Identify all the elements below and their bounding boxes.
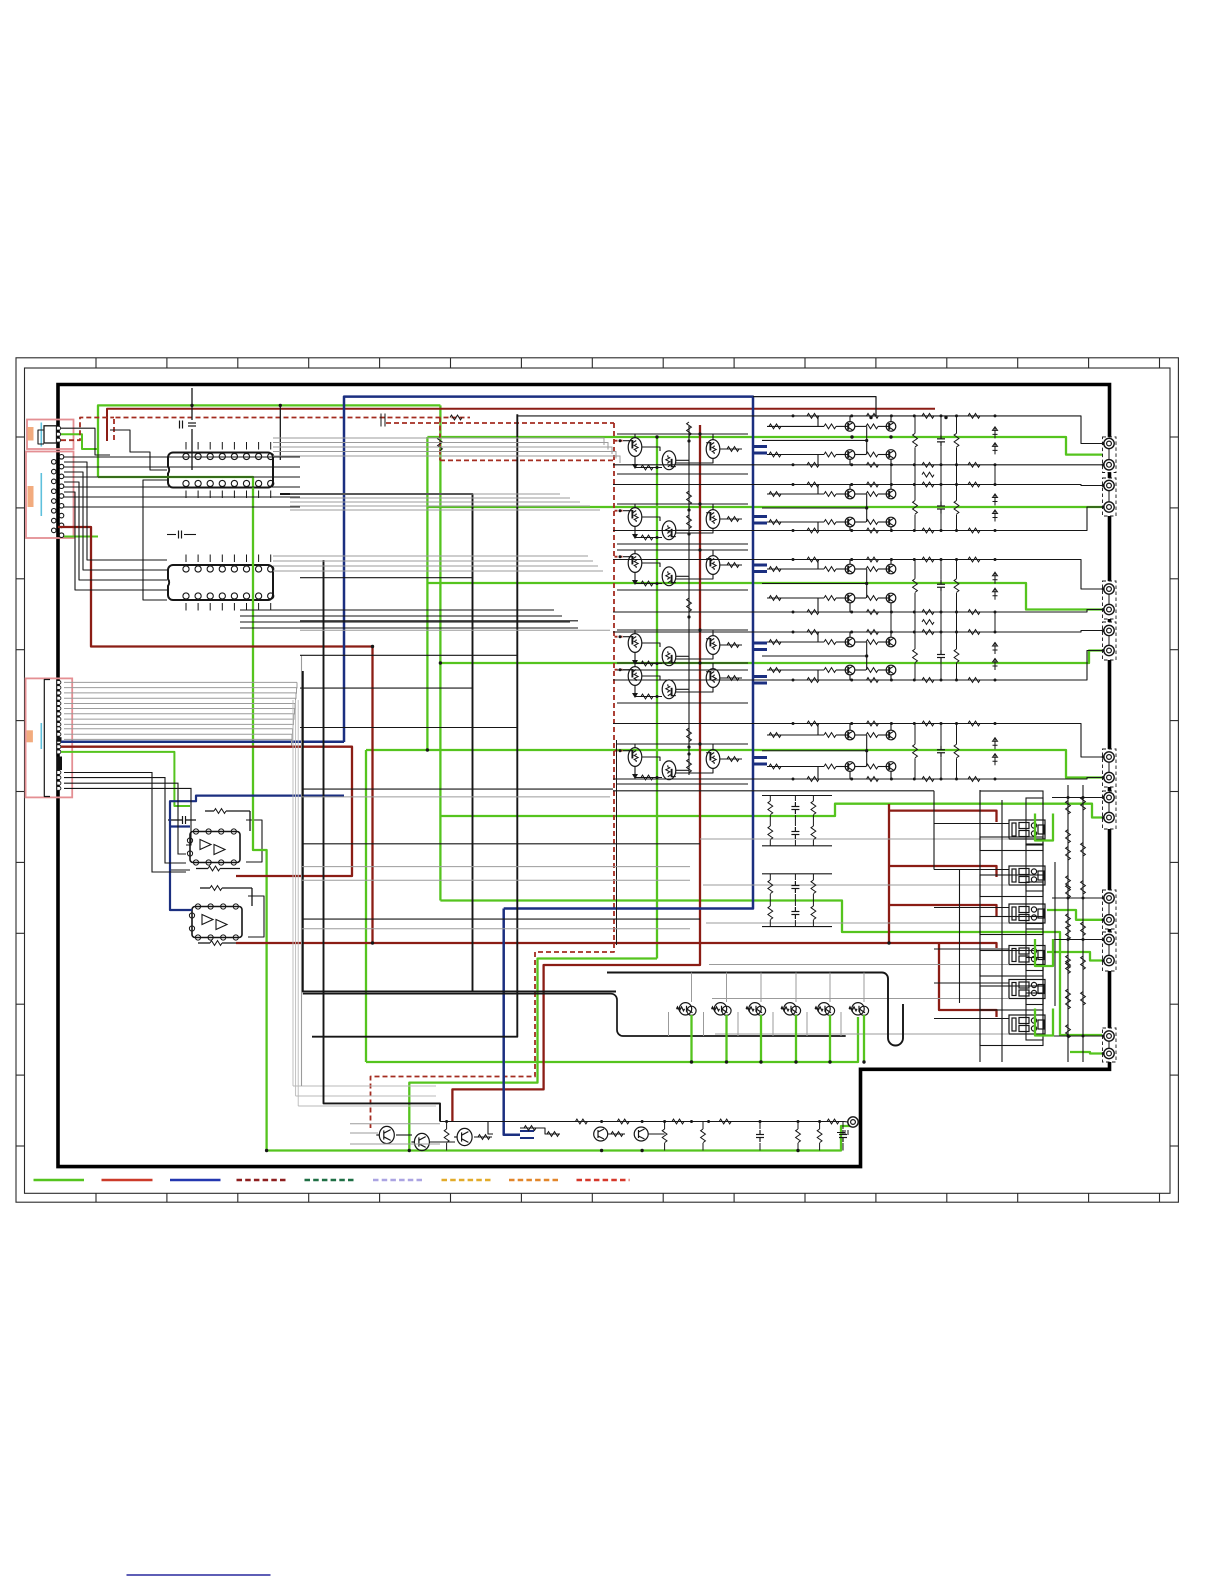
output connector link [1108, 945, 1110, 956]
resistor R-chain [687, 422, 692, 436]
bias component A [768, 801, 773, 815]
bus vert x323 to bottom rail [324, 560, 441, 1122]
transistor Q6a [628, 748, 642, 767]
channel 4 top rail [613, 631, 1040, 633]
maroon wire M2 from CN103 [61, 747, 352, 876]
navy blue stubs on bus [753, 445, 767, 448]
legend line dashed orange [509, 1179, 561, 1182]
power transistor Q65 wires [829, 973, 831, 1003]
green wire CN103 out [61, 752, 190, 806]
grid wires row Q3 [634, 550, 636, 554]
channel 3 mid link [762, 583, 867, 585]
IC IC101 body [168, 453, 273, 488]
transistor Q6b [662, 761, 676, 780]
channel 1 bottom rail [613, 464, 1040, 466]
output device RL3 left wires [934, 907, 1009, 909]
connector CN103 pin block [57, 757, 63, 771]
dashed caps left [381, 414, 385, 427]
output connector dashed box [1103, 1028, 1117, 1062]
op-amp IC201 body [190, 832, 240, 863]
channel 4 transistors [845, 637, 855, 647]
output stage green U loops [1035, 814, 1053, 841]
bias component B [768, 880, 773, 894]
green wire top run y401 [98, 405, 440, 477]
output stage resistors [1066, 801, 1071, 815]
op-amp IC202 pins [195, 904, 200, 909]
channel 5 base resistors [824, 733, 836, 738]
grid wires row Q2 [634, 504, 636, 508]
channel pair mid resistors [922, 472, 934, 477]
bottom row heavy wire top [607, 973, 903, 1046]
green wire jog group F [1070, 1052, 1102, 1054]
maroon branch G3 [889, 905, 997, 916]
maroon vert x699 overlay dots [698, 432, 701, 435]
channel 3 rail resistors [807, 557, 819, 562]
top black wires from ICs [110, 430, 167, 470]
connector CN103 inner bracket [44, 680, 50, 797]
navy blue bus rectangle [344, 397, 753, 909]
channel 2 input resistors [769, 492, 781, 497]
black vert x192 [191, 388, 193, 420]
output connector jack [1104, 752, 1114, 762]
output device RL2 left wires [934, 869, 1009, 871]
IC102 fan right [273, 556, 603, 571]
navy blue CN103 feed [61, 741, 344, 744]
bottom row vertical components [444, 1129, 449, 1143]
channel 2 top rail [613, 484, 1040, 486]
dashed red top y417 [114, 418, 470, 441]
legend line dashed gold [442, 1179, 493, 1182]
output connector jack [1104, 460, 1114, 470]
bottom rail y1121 [440, 1121, 844, 1123]
green wire vert x657 [656, 437, 658, 959]
transistor Q3c [706, 556, 720, 575]
connector CN101 pins [57, 426, 61, 430]
output connector dashed box [1103, 749, 1117, 787]
IC IC102 pins [183, 566, 189, 572]
channel 3 vertical components [913, 579, 918, 593]
output connector jack [1104, 584, 1114, 594]
transistor Q5c [706, 669, 720, 688]
grid wires row Q1 [634, 434, 636, 438]
channel 4 bottom rail [613, 679, 1040, 681]
op-amp wire box 2 [248, 896, 264, 937]
green wire CN101 stub [61, 434, 98, 449]
channel 2 base resistors [824, 492, 836, 497]
black vert x280 [279, 405, 281, 460]
channel 2 rail dots [792, 483, 795, 486]
green wire jog group D [1047, 910, 1102, 920]
green wire row1 y437 [427, 437, 1106, 455]
output device RL5 left wires [934, 982, 1009, 984]
output device RL5 [1009, 980, 1045, 999]
transistor Q6c [706, 750, 720, 769]
op-amp IC202 top resistor [210, 886, 222, 891]
output device RL6 left wires [934, 1018, 1009, 1020]
op-amp IC202 triangles [202, 915, 227, 930]
connector CN103 orange key [27, 730, 33, 742]
bottom row heavy wire left [303, 994, 846, 1036]
output connector jack [1104, 772, 1114, 782]
output connector jack [1104, 604, 1114, 614]
output connector jack [1104, 812, 1114, 822]
connector CN103 box [26, 678, 73, 797]
dashed red vert x613 + bundle to bottom [371, 423, 615, 1128]
channel 1 rail dots [792, 414, 795, 417]
bias cluster rails A [762, 795, 832, 797]
navy blue drop to bottom row [504, 909, 520, 1135]
green wire mid right y816 [441, 804, 1102, 818]
transistor Q2a [628, 508, 642, 527]
black ext of bus top [753, 397, 876, 416]
dots top [190, 404, 193, 407]
output connector jack [1104, 955, 1114, 965]
connector CN102 cyan mark [40, 473, 42, 516]
maroon branch G4 [911, 943, 997, 948]
bottom rail dots [445, 1120, 448, 1123]
IC IC102 body [168, 565, 273, 600]
connector CN103 cyan mark [40, 723, 42, 749]
channel 5 transistors [845, 730, 855, 740]
grid wires row Q6 [634, 744, 636, 748]
transistor Q1c [706, 440, 720, 459]
maroon wire M4 vert x700 + bundle [452, 425, 700, 1122]
transistor Q4c [706, 636, 720, 655]
green wire bundle to bottom [409, 959, 657, 1151]
output connector link [1108, 1041, 1110, 1048]
IC101 fan right [273, 438, 620, 463]
output connector dashed box [1103, 791, 1117, 829]
green wire vert x366 [365, 750, 367, 1062]
channel 2 rail resistors [807, 482, 819, 487]
resistor on dashed x440 [438, 437, 443, 451]
wire CN102 harness [64, 457, 300, 507]
maroon branch G2 [889, 866, 997, 877]
output connector jack [1104, 502, 1114, 512]
power transistor Q66 wires [863, 973, 865, 1003]
op-amp IC201 triangles [200, 840, 225, 855]
channel 5 wires [767, 734, 824, 736]
transistor Q3a [628, 554, 642, 573]
channel 1 transistors [845, 422, 855, 432]
channel 1 mid link [762, 439, 867, 441]
resistor R-chain [687, 598, 692, 612]
output stage wire loops [980, 791, 1043, 851]
IC102 fan down [240, 610, 578, 628]
IC102 pin stubs [186, 555, 271, 611]
power transistor Q66 [849, 1003, 869, 1016]
channel 3 output wires [1040, 560, 1102, 590]
channel 1 rail resistors [807, 414, 819, 419]
channel 2 transistors [845, 489, 855, 499]
cap between ICs [179, 531, 182, 539]
power transistor Q62 [712, 1003, 732, 1016]
bottom transistor wires [350, 1123, 440, 1125]
power transistor Q64 [781, 1003, 801, 1016]
output connector jack [1104, 1031, 1114, 1041]
navy blue to op-amps [170, 796, 344, 910]
power transistor Q65 [815, 1003, 835, 1016]
transistor Q2b [662, 521, 676, 540]
channel 3 transistors [845, 564, 855, 574]
output stage pair feeds [1052, 797, 1102, 799]
maroon branch G1 [889, 811, 997, 822]
output connector jack [1104, 915, 1114, 925]
frame outer border [16, 358, 1178, 1202]
channel 5 input resistors [769, 733, 781, 738]
output connector jack [1104, 792, 1114, 802]
resistor chain x689 [688, 426, 690, 775]
navy blue op-amp1 stub [170, 825, 190, 827]
power transistor Q62 wires [726, 973, 728, 1003]
green wire row3 y583 [427, 583, 1102, 610]
bias component B [791, 881, 799, 893]
op-amp IC202 bottom resistor [210, 941, 222, 946]
green wire bottom rail y1150 [267, 1126, 852, 1151]
resistor R-chain [687, 491, 692, 505]
channel 2 vertical components [913, 501, 918, 515]
bias cluster rails B [762, 873, 832, 875]
connector CN101 orange key [28, 427, 34, 441]
output device RL4 left wires [934, 948, 1009, 950]
frame zone ticks left/right [16, 437, 1178, 1146]
channel pair connectors [890, 465, 892, 485]
output device RL2 [1009, 866, 1045, 885]
channel 5 mid link [762, 750, 867, 752]
bus vert x302 heavy [303, 671, 616, 992]
wire CN101 loops [61, 428, 110, 455]
gray ribbon CN103 [64, 682, 297, 745]
maroon wire M1 from CN102 [58, 527, 373, 943]
mesh horizontals left [300, 577, 473, 579]
power transistor Q61 [677, 1003, 697, 1016]
channel 4 rail resistors [807, 630, 819, 635]
green wire mid right y897 [440, 901, 1102, 1036]
resistor R-chain [687, 515, 692, 529]
channel 3 wires [767, 568, 824, 570]
wire CN102 nest [64, 462, 167, 560]
channel 4 base resistors [824, 640, 836, 645]
op-amp IC201 top resistor [214, 809, 226, 814]
output connector dashed box [1103, 932, 1117, 971]
output connector link [1108, 491, 1110, 502]
output stage verticals [933, 791, 935, 870]
green wire row2 y507 [427, 506, 1102, 508]
legend line solid red [102, 1179, 153, 1182]
channel 3 input resistors [769, 567, 781, 572]
transistor Q1a [628, 438, 642, 457]
power transistor Q63 [746, 1003, 766, 1016]
resistor R-chain [687, 759, 692, 773]
IC101 pin stubs [186, 442, 271, 498]
output connector dashed box [1103, 478, 1117, 516]
mesh gray horizontals left [300, 629, 610, 631]
wire CN103 south fan [64, 773, 191, 873]
channel 4 input resistors [769, 640, 781, 645]
dashed red y423 [386, 422, 614, 424]
bottom transistors [376, 1126, 394, 1143]
output connector jack [1104, 893, 1114, 903]
legend line dashed lavender [373, 1179, 425, 1182]
op-amp IC201 top capacitor [183, 816, 186, 824]
gray fan IC101 bottom [290, 494, 600, 510]
channel 4 mid link [762, 655, 867, 657]
channel 5 rail resistors [807, 721, 819, 726]
bias component B [811, 880, 816, 894]
output connector link [1108, 449, 1110, 460]
maroon wire M5 comb x889 [888, 804, 890, 943]
bus vert x517 [312, 414, 517, 1036]
connector CN101 cyan mark [40, 423, 42, 447]
channel 5 rail dots [792, 722, 795, 725]
footer blue underline [127, 1574, 271, 1576]
IC IC101 pins [183, 453, 189, 459]
channel 2 output wires [1040, 485, 1102, 486]
output connector jack [1104, 1048, 1114, 1058]
green wire jog group E [1047, 952, 1102, 961]
channel 4 vertical components [913, 649, 918, 663]
output connector dashed box [1103, 437, 1117, 473]
legend line solid blue [170, 1179, 221, 1182]
transistor Q4a [628, 634, 642, 653]
output connector jack [1104, 438, 1114, 448]
op-amp IC201 bottom resistor [208, 866, 220, 871]
maroon top solid y409 [107, 409, 935, 441]
channel 4 wires [767, 641, 824, 643]
channel 3 top rail [613, 559, 1040, 561]
channel 1 output wires [1040, 416, 1102, 444]
output connector link [1108, 903, 1110, 914]
frame inner border [25, 368, 1171, 1193]
channel 5 output wires [1040, 724, 1102, 758]
output device RL4 [1009, 946, 1045, 965]
gray ribbon verticals [293, 700, 436, 1106]
green wire row4 y663 [440, 651, 1102, 664]
op-amp wire box 1 [246, 820, 262, 862]
power transistor Q61 wires [691, 973, 693, 1003]
connector CN102 pins [59, 455, 64, 460]
legend line solid green [34, 1179, 85, 1182]
output device RL1 [1009, 820, 1045, 839]
thick schematic border [58, 385, 1110, 1167]
transistor Q4b [662, 647, 676, 666]
legend line dashed red [577, 1179, 630, 1182]
channel 2 bottom rail [613, 530, 1040, 532]
output device RL1 left wires [934, 823, 1009, 825]
transistor Q5b [662, 680, 676, 699]
bias component A [811, 801, 816, 815]
output connector dashed box [1103, 622, 1117, 660]
output connector jack [1104, 625, 1114, 635]
output connector link [1108, 762, 1110, 772]
connector CN101 shell [44, 426, 57, 443]
op-amp IC202 body [192, 907, 242, 938]
connector CN102 box [26, 452, 74, 539]
channel 5 top rail [613, 723, 1040, 725]
output connector link [1108, 594, 1110, 604]
green wire staircase left [98, 477, 267, 1151]
resistor on dashed y417 [450, 415, 462, 420]
rail end wires [844, 1121, 848, 1124]
bottom rail resistors [575, 1119, 587, 1124]
channel 2 mid link [762, 507, 867, 509]
black vert x616 [616, 740, 618, 945]
channel 4 output wires [1040, 631, 1102, 633]
transistor Q3b [662, 567, 676, 586]
channel 5 bottom rail [613, 778, 1040, 780]
channel 5 vertical components [913, 744, 918, 758]
green wire vert x427 [426, 437, 428, 750]
output connector link [1108, 803, 1110, 813]
green wire row5 y750 [366, 750, 1102, 778]
channel 1 input resistors [769, 424, 781, 429]
dashed red stub grid rows [615, 440, 624, 442]
connector CN102 orange key [28, 486, 34, 507]
channel 1 base resistors [824, 424, 836, 429]
top mid cap x181 y424 [180, 421, 183, 429]
dashed red y460 [440, 459, 614, 461]
channel 1 top rail [518, 415, 1040, 417]
dashed red CN101 jog [61, 418, 114, 441]
bias component A [791, 802, 799, 814]
output device RL3 [1009, 904, 1045, 923]
output connector jack [1104, 934, 1114, 944]
green wire rail y1062 [366, 1017, 858, 1062]
channel 3 bottom rail [613, 611, 1040, 613]
maroon wire M6 to G6 [939, 943, 997, 1017]
grid wires row Q5 [634, 663, 636, 667]
output connector jack [1104, 480, 1114, 490]
legend line dashed dark red [237, 1179, 289, 1182]
channel 3 base resistors [824, 567, 836, 572]
dashed red vert x440 [439, 418, 441, 461]
output connector link [1108, 636, 1110, 646]
power transistor Q64 wires [795, 973, 797, 1003]
bottom output jack [848, 1117, 858, 1127]
connector CN101 box [27, 420, 74, 450]
connector CN103 pins [57, 681, 61, 685]
green wire CN102 stub [64, 536, 98, 538]
green wire vert x440 to y897 [439, 405, 441, 900]
bus vert x472 [280, 494, 473, 992]
navy blue bottom inductor [520, 1131, 534, 1138]
resistor R-chain [687, 728, 692, 742]
power transistor Q63 wires [760, 973, 762, 1003]
grid wires row Q4 [634, 630, 636, 634]
bus vert x301 [301, 655, 303, 1086]
maroon wire M3 long y943 [236, 942, 911, 944]
channel 3 rail dots [792, 558, 795, 561]
op-amp IC201 pins [193, 829, 198, 834]
output connector dashed box [1103, 581, 1117, 619]
transistor Q2c [706, 510, 720, 529]
legend line dashed dark green [305, 1179, 357, 1182]
channel 1 wires [767, 425, 824, 427]
channel 1 vertical components [913, 433, 918, 447]
channel 4 rail dots [792, 631, 795, 634]
transistor Q5a [628, 667, 642, 686]
output connector jack [1104, 645, 1114, 655]
transistor Q1b [662, 451, 676, 470]
cap at x192 [188, 423, 196, 426]
middle grid rails [617, 433, 748, 435]
output connector dashed box [1103, 890, 1117, 929]
frame zone ticks top/bottom [96, 358, 1160, 1202]
channel 2 wires [767, 493, 824, 495]
output device RL6 [1009, 1015, 1045, 1034]
